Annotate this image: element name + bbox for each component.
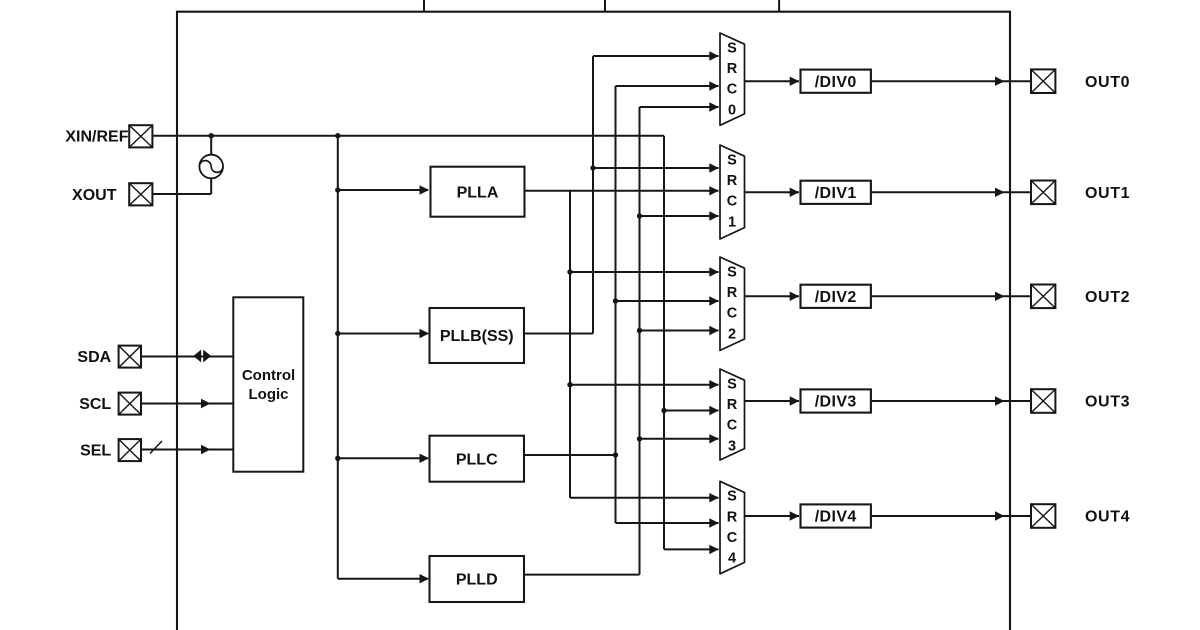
wire SRC2 output (745, 295, 800, 297)
block PLLC (430, 436, 525, 482)
arrow SRC0 in3 (709, 102, 719, 111)
wire SRC1 in1 (593, 167, 719, 169)
vertical PLLB routing line (592, 56, 594, 334)
svg-text:OUT4: OUT4 (1085, 509, 1130, 526)
divider /DIV1 (801, 181, 871, 204)
wire /DIV3 to OUT3 pad (871, 400, 1031, 402)
svg-text:PLLB(SS): PLLB(SS) (440, 328, 514, 345)
junction XIN feed (335, 133, 340, 138)
arrow SRC1 in1 (709, 163, 719, 172)
mux SRC0 (720, 33, 745, 125)
arrow SRC2 in3 (709, 326, 719, 335)
arrow SRC0 in2 (709, 81, 719, 90)
junction feed PLLA (335, 187, 340, 192)
arrow into PLLC (420, 454, 430, 463)
wire SRC4 in2 (616, 522, 719, 524)
wire SRC0 in3 (640, 106, 719, 108)
arrow OUT0 at chip edge (995, 77, 1005, 86)
wire PLLB output (524, 333, 593, 335)
junction SRC3 in3 (637, 436, 642, 441)
arrow into PLLB(SS) (420, 329, 430, 338)
wire /DIV2 to OUT2 pad (871, 295, 1031, 297)
svg-text:XOUT: XOUT (72, 187, 117, 204)
wire SDA to control logic (141, 356, 233, 358)
svg-text:1: 1 (728, 214, 736, 230)
arrow into PLLA (420, 185, 430, 194)
arrow OUT2 at chip edge (995, 292, 1005, 301)
arrow SRC4 in2 (709, 518, 719, 527)
wire SRC0 in2 (616, 85, 719, 87)
junction SRC2 in3 (637, 328, 642, 333)
vertical PLLD routing line (639, 107, 641, 575)
wire /DIV4 to OUT4 pad (871, 515, 1031, 517)
svg-text:S: S (727, 152, 737, 168)
wire SRC4 in1 (570, 497, 719, 499)
arrow SRC0 in1 (709, 51, 719, 60)
svg-text:C: C (727, 306, 738, 322)
svg-text:SEL: SEL (80, 443, 111, 460)
wire SRC3 in2 (664, 410, 719, 412)
pad OUT2 (1031, 285, 1055, 309)
arrow SCL (201, 399, 211, 408)
pad OUT4 (1031, 504, 1055, 528)
top edge tick 2 (cropped block above) (604, 0, 606, 12)
wire XOUT to crystal (152, 193, 211, 195)
wire PLLA output to SRC1 (525, 190, 719, 192)
vertical PLLA routing line (569, 191, 571, 498)
svg-text:C: C (727, 418, 738, 434)
svg-text:0: 0 (728, 102, 736, 118)
wire PLLC output (524, 454, 616, 456)
arrow SRC1 in2 (PLLA direct) (709, 186, 719, 195)
svg-text:R: R (727, 285, 738, 301)
svg-text:/DIV3: /DIV3 (815, 394, 857, 411)
svg-text:/DIV1: /DIV1 (815, 185, 857, 202)
top edge tick 3 (cropped block above) (778, 0, 780, 12)
arrow into /DIV1 (790, 188, 800, 197)
wire SRC2 in1 (570, 271, 719, 273)
wire crystal bottom (210, 178, 212, 194)
wire SRC1 output (745, 191, 800, 193)
junction SRC1 in3 (637, 213, 642, 218)
arrow SRC2 in1 (709, 267, 719, 276)
control logic box (233, 297, 303, 471)
svg-text:Control: Control (242, 367, 295, 384)
svg-text:Logic: Logic (249, 386, 289, 403)
pad SEL (119, 439, 141, 461)
pad OUT0 (1031, 69, 1055, 93)
svg-text:R: R (727, 397, 738, 413)
wire SRC2 in2 (616, 300, 719, 302)
svg-text:OUT3: OUT3 (1085, 394, 1130, 411)
mux SRC2 (720, 257, 745, 350)
wire SRC4 in3 (664, 548, 719, 550)
pad OUT3 (1031, 389, 1055, 413)
pad SDA (119, 346, 141, 368)
svg-text:XIN/REF: XIN/REF (65, 129, 128, 146)
pad SCL (119, 393, 141, 415)
wire SRC0 in1 (593, 55, 719, 57)
svg-text:OUT1: OUT1 (1085, 185, 1130, 202)
arrow OUT3 at chip edge (995, 396, 1005, 405)
arrow into /DIV4 (790, 511, 800, 520)
divider /DIV2 (801, 285, 871, 308)
wire feed to PLLA (338, 189, 428, 191)
svg-text:C: C (727, 530, 738, 546)
divider /DIV4 (801, 504, 871, 527)
junction SRC3 in2 (661, 408, 666, 413)
wire feed to PLLD (338, 578, 428, 580)
arrow SRC4 in3 (709, 545, 719, 554)
divider /DIV3 (801, 389, 871, 412)
mux SRC1 (720, 145, 745, 239)
junction SRC2 in2 (613, 298, 618, 303)
svg-text:S: S (727, 489, 737, 505)
junction SRC3 in1 (567, 382, 572, 387)
vertical XIN routing line (663, 136, 665, 550)
wire PLLD output (524, 574, 640, 576)
arrow SRC3 in1 (709, 380, 719, 389)
junction XIN/crystal (209, 133, 214, 138)
svg-text:R: R (727, 509, 738, 525)
bus slash on SEL wire (150, 441, 162, 454)
wire SRC3 in1 (570, 384, 719, 386)
arrow SRC3 in2 (709, 406, 719, 415)
arrow into /DIV0 (790, 77, 800, 86)
vertical PLL reference feed line (337, 136, 339, 579)
divider /DIV0 (801, 70, 871, 93)
wire /DIV0 to OUT0 pad (871, 80, 1031, 82)
bidirectional arrow on SDA wire (193, 350, 201, 363)
svg-text:2: 2 (728, 326, 736, 342)
svg-text:PLLA: PLLA (457, 184, 499, 201)
pad XIN/REF (129, 125, 152, 147)
block PLLA (431, 167, 525, 217)
mux SRC4 (720, 481, 745, 574)
wire feed to PLLB(SS) (338, 333, 428, 335)
svg-text:PLLC: PLLC (456, 451, 498, 468)
svg-text:OUT2: OUT2 (1085, 289, 1130, 306)
wire SRC1 in3 (640, 215, 719, 217)
svg-text:S: S (727, 264, 737, 280)
svg-text:/DIV2: /DIV2 (815, 289, 857, 306)
vertical PLLC routing line (615, 86, 617, 523)
svg-text:OUT0: OUT0 (1085, 74, 1130, 91)
junction SRC1 in1 (590, 165, 595, 170)
svg-text:C: C (727, 194, 738, 210)
svg-text:/DIV0: /DIV0 (815, 74, 857, 91)
junction feed PLLC (335, 456, 340, 461)
mux SRC3 (720, 369, 745, 460)
arrow SEL (201, 445, 211, 454)
svg-text:PLLD: PLLD (456, 572, 498, 589)
crystal oscillator symbol (199, 155, 223, 179)
arrow OUT1 at chip edge (995, 188, 1005, 197)
chip boundary box (cropped at bottom) (177, 12, 1010, 630)
junction feed PLLB(SS) (335, 331, 340, 336)
svg-text:4: 4 (728, 551, 736, 567)
svg-text:SDA: SDA (77, 349, 111, 366)
top edge tick 1 (cropped block above) (423, 0, 425, 12)
arrow OUT4 at chip edge (995, 511, 1005, 520)
svg-text:R: R (727, 61, 738, 77)
wire SCL to control logic (141, 403, 233, 405)
arrow SRC2 in2 (709, 296, 719, 305)
arrow SRC3 in3 (709, 434, 719, 443)
pad OUT1 (1031, 181, 1055, 205)
arrow SRC1 in3 (709, 211, 719, 220)
wire SRC3 in3 (640, 438, 719, 440)
junction PLLC output (613, 452, 618, 457)
wire feed to PLLC (338, 457, 428, 459)
svg-text:S: S (727, 40, 737, 56)
arrow into /DIV2 (790, 292, 800, 301)
svg-text:S: S (727, 376, 737, 392)
svg-text:R: R (727, 173, 738, 189)
pad XOUT (129, 183, 152, 205)
svg-text:3: 3 (728, 438, 736, 454)
wire /DIV1 to OUT1 pad (871, 191, 1031, 193)
wire SRC4 output (745, 515, 800, 517)
wire SEL to control logic (141, 449, 233, 451)
svg-text:C: C (727, 82, 738, 98)
block PLLD (430, 556, 525, 602)
arrow into PLLD (420, 574, 430, 583)
wire SRC2 in3 (640, 330, 719, 332)
arrow SRC4 in1 (709, 493, 719, 502)
wire XIN/REF horizontal (152, 135, 664, 137)
wire XIN to crystal top (210, 136, 212, 155)
block PLLB(SS) (430, 308, 525, 363)
junction SRC2 in1 (567, 269, 572, 274)
wire SRC3 output (745, 400, 800, 402)
wire SRC0 output (745, 80, 800, 82)
arrow into /DIV3 (790, 396, 800, 405)
svg-text:/DIV4: /DIV4 (815, 509, 857, 526)
svg-text:SCL: SCL (79, 396, 111, 413)
